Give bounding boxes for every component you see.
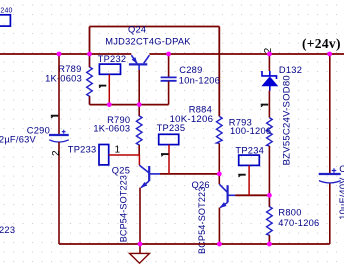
wire TP234 pin	[248, 165, 250, 195]
wire output cap bottom	[329, 184, 331, 245]
node ground / Q26 emitter	[217, 242, 222, 247]
node Q25 collector / R884 junction	[217, 172, 222, 177]
wire ground bus	[59, 243, 330, 245]
wire R884 node down to Q26 base	[218, 174, 220, 184]
resistor R800	[267, 195, 273, 244]
arrow of Q26 emitter	[221, 203, 226, 207]
wire R884 bottom	[218, 143, 220, 174]
wire Q24 loop left edge	[89, 27, 91, 55]
resistor R884	[217, 116, 223, 143]
svg-text:1: 1	[115, 145, 121, 156]
node +24v / R789 junction	[87, 52, 92, 57]
wire R793 bottom	[268, 146, 270, 195]
svg-text:Q24: Q24	[128, 25, 146, 35]
wire C290 bottom	[58, 142, 60, 244]
arrow of Q24 emitter	[133, 58, 137, 63]
node TP232 junction	[107, 102, 112, 107]
zener diode D132	[268, 54, 270, 71]
svg-text:BZV55C24V-SOD80: BZV55C24V-SOD80	[282, 75, 293, 165]
wire TP235 pin	[168, 145, 170, 174]
svg-text:D132: D132	[279, 65, 302, 75]
svg-text:TP234: TP234	[235, 145, 264, 155]
wire Q26 collector to R793/R800 node	[235, 194, 269, 196]
svg-text:R884: R884	[189, 104, 212, 114]
node +24v / C289 junction	[166, 52, 171, 57]
wire Q26 emitter down	[218, 208, 220, 244]
svg-text:22µF/63V: 22µF/63V	[0, 134, 37, 144]
wire Q24 collector loop top	[90, 26, 220, 28]
wire D132 bottom	[268, 91, 270, 118]
svg-text:2: 2	[51, 150, 62, 156]
resistor R793	[267, 118, 273, 146]
wire +24v rail left segment	[0, 53, 131, 55]
testpoint TP233	[99, 145, 109, 165]
transistor Q24	[129, 55, 150, 70]
svg-text:1K-0603: 1K-0603	[93, 124, 130, 134]
wire R800 stubs	[268, 195, 270, 244]
svg-text:C29: C29	[339, 164, 344, 174]
wire base bus y=104.6	[90, 104, 169, 106]
node ground / R800	[267, 242, 272, 247]
wire R790 bottom stub	[138, 145, 140, 155]
node Q24 base junction	[137, 102, 142, 107]
testpoint TP235	[159, 134, 179, 144]
svg-text:Q25: Q25	[112, 166, 130, 176]
triangle of D132	[262, 77, 277, 86]
testpoint TP232	[99, 64, 120, 74]
capacitor C291 output (right edge)	[329, 54, 331, 173]
transistor Q26	[219, 184, 235, 207]
wire R789 bottom stub	[89, 96, 91, 104]
plus sign of output cap	[332, 168, 337, 173]
pin number 1 of D132	[261, 104, 269, 106]
svg-text:BCP54-SOT223: BCP54-SOT223	[118, 175, 128, 242]
wire Q25 emitter down	[139, 188, 141, 244]
wire TP232 pin	[108, 74, 110, 104]
wire Q24 loop right edge down to R884	[218, 27, 220, 117]
capacitor C290	[58, 54, 60, 135]
capacitor C289	[168, 54, 170, 77]
node R793/R800/collector junction	[267, 193, 272, 198]
svg-text:470-1206: 470-1206	[278, 218, 319, 228]
svg-text:100-1206: 100-1206	[230, 126, 271, 136]
svg-text:TP233: TP233	[68, 145, 97, 155]
svg-text:TP235: TP235	[157, 123, 186, 133]
svg-text:MJD32CT4G-DPAK: MJD32CT4G-DPAK	[105, 36, 191, 46]
resistor R789	[87, 54, 93, 105]
testpoint TP234	[239, 155, 260, 165]
resistor R790	[136, 105, 142, 155]
node ground / Q25 emitter	[138, 242, 143, 247]
transistor Q25	[139, 165, 160, 187]
wire R789 top stub	[89, 54, 91, 67]
svg-text:TP240: TP240	[0, 8, 13, 15]
arrow of Q25 emitter	[142, 183, 147, 187]
svg-text:(+24v): (+24v)	[302, 36, 341, 51]
wire Q24 base down	[138, 70, 140, 105]
ground symbol	[139, 244, 141, 253]
wire TP233 pin to Q25 base	[109, 155, 140, 165]
svg-text:10µF/40V: 10µF/40V	[338, 177, 344, 220]
plus sign of C290	[62, 130, 66, 134]
node +24v / D132 junction	[267, 52, 272, 57]
wire +24v rail right segment	[149, 53, 344, 55]
svg-text:C289: C289	[179, 65, 202, 75]
wire C289 bottom	[168, 81, 170, 104]
svg-text:TP232: TP232	[98, 54, 127, 64]
wire R790 top stub	[138, 105, 140, 116]
pin number 1 of TP235	[161, 153, 169, 155]
node +24v / C290 junction	[57, 52, 62, 57]
svg-text:R800: R800	[278, 207, 301, 217]
svg-text:1K-0603: 1K-0603	[45, 73, 82, 83]
wire Q25 collector to R884 node	[160, 173, 219, 175]
node +24v / output cap junction	[327, 52, 332, 57]
pin number 1 of TP234	[238, 174, 246, 176]
svg-text:10n-1206: 10n-1206	[179, 75, 220, 85]
pin number 1 of C290	[51, 115, 59, 117]
pin number 1 of TP232	[99, 85, 107, 87]
svg-text:223: 223	[0, 225, 15, 235]
